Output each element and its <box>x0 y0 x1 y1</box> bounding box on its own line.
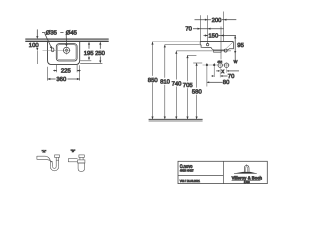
height line 740 <box>175 51 231 119</box>
installation height lines <box>151 42 231 120</box>
height line 705 <box>186 55 196 119</box>
svg-text:810: 810 <box>160 79 171 86</box>
dimension 70 (side view) <box>185 25 223 32</box>
svg-text:434236 434237: 434236 434237 <box>180 168 194 172</box>
svg-text:x: x <box>221 69 224 75</box>
title block frame <box>178 161 267 183</box>
extension line basin bottom right <box>80 63 102 65</box>
svg-text:80: 80 <box>223 79 230 86</box>
dimension 195 (vertical right of basin) <box>84 42 95 61</box>
dimension 360 <box>48 65 80 83</box>
detail: hole circle 2 <box>224 62 228 72</box>
centerline through holes <box>43 50 71 52</box>
svg-text:Ø35: Ø35 <box>46 29 58 36</box>
svg-text:70: 70 <box>228 73 235 80</box>
svg-text:95: 95 <box>237 42 244 49</box>
svg-text:225: 225 <box>61 67 72 74</box>
height line 850 <box>151 42 153 120</box>
tap hole on deck <box>206 43 208 45</box>
mounting hole detail: centerline <box>203 64 230 66</box>
outlet on underside <box>224 49 227 52</box>
wall band (top view) <box>25 39 108 42</box>
siphon icon A (P-trap) <box>37 155 60 171</box>
svg-text:100: 100 <box>29 42 40 49</box>
detail: fixing dot 1 <box>206 63 208 87</box>
basin outline (top view) <box>48 42 80 65</box>
svg-text:705: 705 <box>183 82 194 89</box>
dimension 95 (side view right) <box>234 36 244 61</box>
svg-text:150: 150 <box>208 33 219 40</box>
svg-text:580: 580 <box>192 89 203 96</box>
label Ø45 with leader <box>60 29 77 46</box>
svg-text:70: 70 <box>185 25 192 32</box>
tap hole (oval, left ledge) <box>51 48 54 52</box>
dimension 100 <box>29 29 40 64</box>
height line 580 <box>193 63 202 119</box>
svg-text:"B": "B" <box>71 149 75 153</box>
extension line bowl bottom right <box>80 60 91 62</box>
dimension 225 <box>53 65 80 75</box>
dimension 250 (vertical right of basin) <box>95 42 106 64</box>
svg-text:360: 360 <box>56 76 67 83</box>
detail dimension 70 <box>212 73 236 80</box>
bowl outer rim (top view) <box>56 44 77 61</box>
svg-text:Ø14: Ø14 <box>218 61 223 64</box>
label Ø35 with leader <box>42 29 58 49</box>
side view: basin profile <box>200 42 233 53</box>
svg-text:200: 200 <box>212 17 223 24</box>
detail: fixing dot 2 <box>213 63 215 77</box>
side view extension lines <box>200 12 223 60</box>
siphon icon B (bottle trap) <box>68 155 85 172</box>
detail dimension 80 <box>207 79 230 86</box>
title block text <box>180 164 201 183</box>
svg-text:1748: 1748 <box>244 181 250 184</box>
floor line with hatch <box>149 119 203 122</box>
svg-text:250: 250 <box>95 50 106 57</box>
detail dimension x <box>216 69 239 75</box>
svg-text:Villeroy & Boch: Villeroy & Boch <box>232 176 263 181</box>
svg-text:850: 850 <box>148 77 159 84</box>
svg-text:"A": "A" <box>42 150 46 154</box>
svg-text:Ø45: Ø45 <box>66 29 78 36</box>
hidden bowl slope <box>225 42 233 50</box>
svg-text:W: W <box>234 59 238 64</box>
svg-text:V03 / 16.06.2021: V03 / 16.06.2021 <box>180 179 201 183</box>
side view: rim extension line (gray) <box>153 41 201 43</box>
drain recess under bowl <box>214 50 222 52</box>
Villeroy & Boch logo <box>232 164 263 184</box>
dimension 200 (side view) <box>195 17 237 24</box>
dimension 150 (side view) <box>204 33 236 40</box>
drain with strainer <box>63 46 69 55</box>
height line 810 <box>164 45 200 120</box>
height labels <box>148 77 203 96</box>
svg-text:740: 740 <box>172 80 183 87</box>
bowl inner rim (top view) <box>57 45 76 60</box>
detail: hole circle 1 <box>218 62 222 77</box>
svg-text:195: 195 <box>84 50 95 57</box>
